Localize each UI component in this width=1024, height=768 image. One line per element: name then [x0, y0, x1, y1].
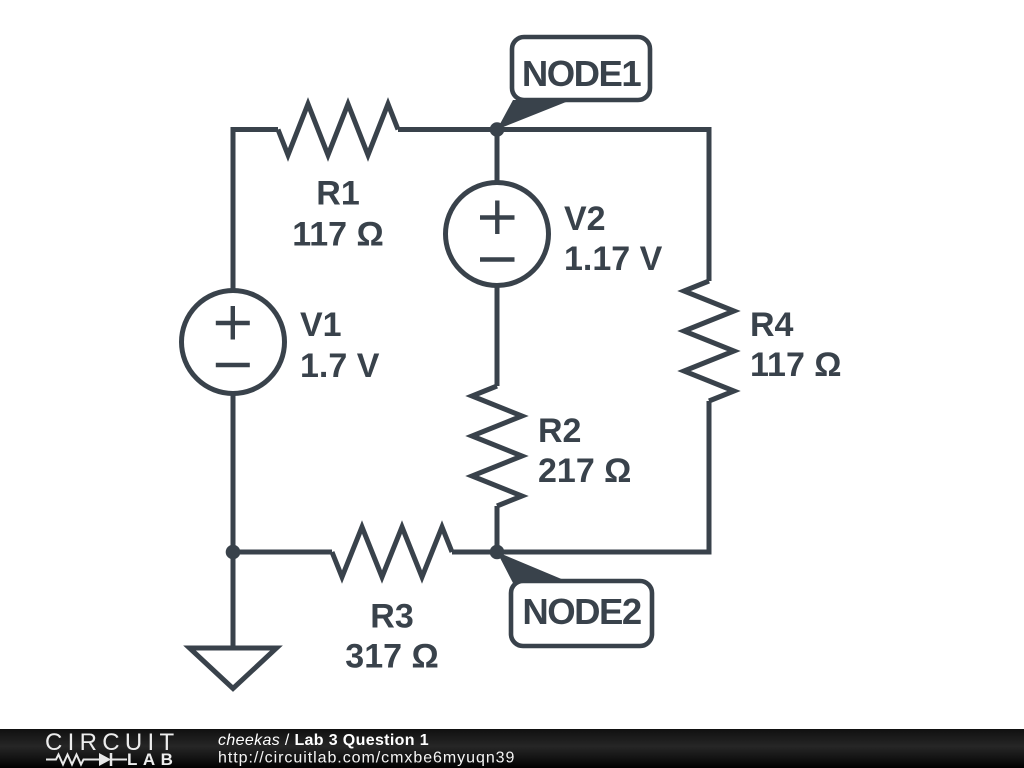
resistor R2 [472, 386, 522, 506]
wire: ground stem [231, 552, 236, 648]
svg-text:R1: R1 [316, 175, 359, 213]
svg-text:V1: V1 [300, 306, 342, 344]
svg-text:NODE1: NODE1 [522, 53, 641, 94]
V1 plus sign [216, 306, 250, 340]
V2 minus sign [480, 257, 515, 261]
svg-text:V2: V2 [564, 200, 606, 238]
NODE1 callout box [512, 37, 650, 100]
resistor R3 [332, 527, 452, 577]
NODE2 callout box [511, 581, 652, 646]
svg-text:cheekas / Lab 3 Question 1: cheekas / Lab 3 Question 1 [218, 732, 429, 749]
svg-text:317 Ω: 317 Ω [345, 638, 438, 676]
wire: bottom-left node to R3 [233, 550, 332, 555]
junction dot node2 [490, 545, 505, 560]
svg-text:1.17 V: 1.17 V [564, 240, 663, 278]
svg-text:R3: R3 [370, 598, 413, 636]
wire: R1 to node1 [398, 127, 497, 132]
logo diode triangle [99, 753, 111, 766]
svg-text:1.7 V: 1.7 V [300, 347, 380, 385]
ground symbol [190, 648, 277, 689]
wire: node1 down to V2 [495, 130, 500, 185]
svg-text:http://circuitlab.com/cmxbe6my: http://circuitlab.com/cmxbe6myuqn39 [218, 750, 515, 767]
footer bar [0, 729, 1024, 768]
NODE1 callout tail [497, 100, 571, 130]
junction dot bottom-left [226, 545, 241, 560]
wire: R2 to node2 [495, 506, 500, 552]
svg-text:R2: R2 [538, 412, 581, 450]
voltage source V2 circle [446, 183, 549, 286]
wire: left vertical + top-left corner to R1 [233, 130, 278, 292]
svg-text:117 Ω: 117 Ω [750, 346, 842, 384]
V2 plus sign [480, 201, 515, 235]
NODE2 callout tail [497, 552, 571, 583]
wire: V2 to R2 [495, 284, 500, 386]
logo diode cathode bar [110, 753, 113, 766]
svg-text:LAB: LAB [127, 750, 178, 768]
resistor R4 [684, 281, 734, 401]
logo resistor-diode glyph [46, 755, 127, 765]
resistor R1 [278, 104, 398, 155]
wire: node1 to top-right corner down to R4 [497, 130, 709, 282]
svg-text:117 Ω: 117 Ω [292, 216, 384, 254]
wire: R4 to bottom-right corner to node2 [497, 401, 709, 552]
svg-text:NODE2: NODE2 [522, 591, 640, 632]
wire: R3 to node2 [452, 550, 497, 555]
V1 minus sign [216, 363, 250, 367]
wire: V1 down to bottom-left node [231, 393, 236, 552]
svg-text:217 Ω: 217 Ω [538, 452, 631, 490]
voltage source V1 circle [182, 291, 285, 394]
svg-text:R4: R4 [750, 306, 794, 344]
junction dot node1 [490, 122, 505, 137]
